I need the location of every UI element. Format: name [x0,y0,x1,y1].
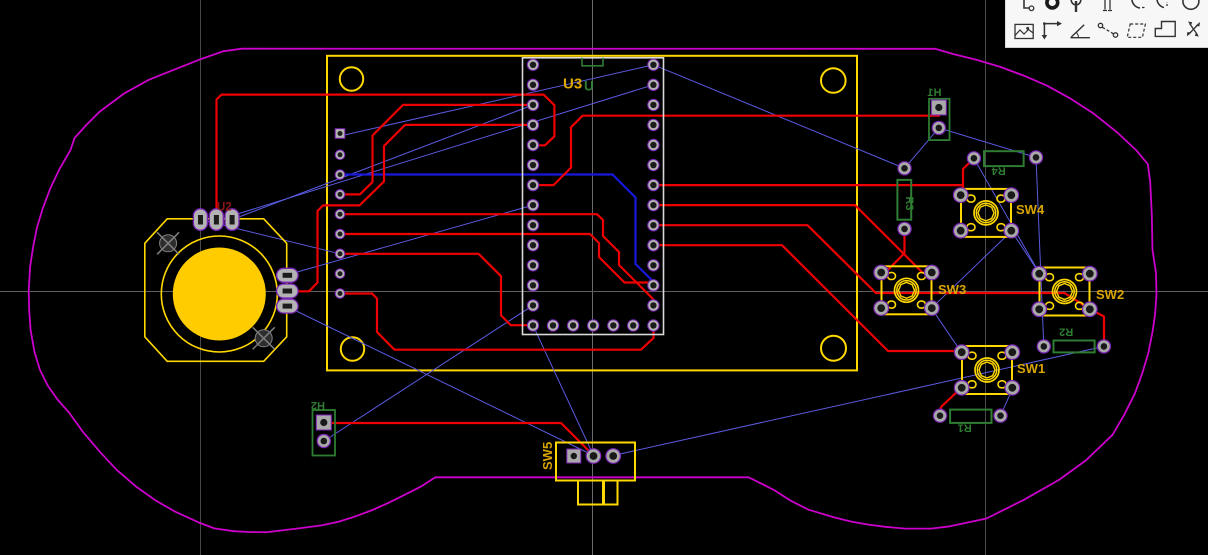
svg-text:SW2: SW2 [1096,287,1124,302]
svg-text:R3: R3 [903,196,915,210]
svg-text:H2: H2 [311,399,325,411]
svg-text:U: U [584,79,594,94]
svg-text:H1: H1 [927,87,941,99]
svg-text:U3: U3 [563,76,582,93]
svg-text:R1: R1 [958,422,972,434]
svg-text:SW4: SW4 [1016,202,1045,217]
svg-text:R4: R4 [991,164,1006,176]
svg-text:R2: R2 [1059,325,1073,337]
svg-text:SW5: SW5 [540,442,555,470]
svg-text:U2: U2 [217,202,232,214]
svg-text:SW3: SW3 [938,282,966,297]
svg-text:SW1: SW1 [1017,361,1045,376]
